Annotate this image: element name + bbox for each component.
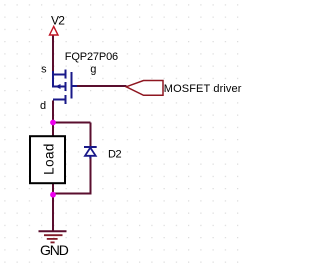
svg-text:Load: Load [42, 143, 57, 175]
svg-text:MOSFET driver: MOSFET driver [164, 83, 242, 95]
svg-text:s: s [41, 65, 48, 77]
svg-text:d: d [40, 101, 47, 113]
svg-text:D2: D2 [108, 149, 121, 161]
svg-text:g: g [90, 65, 97, 77]
svg-text:FQP27P06: FQP27P06 [65, 51, 118, 63]
svg-text:V2: V2 [51, 14, 65, 28]
svg-text:GND: GND [40, 242, 69, 258]
